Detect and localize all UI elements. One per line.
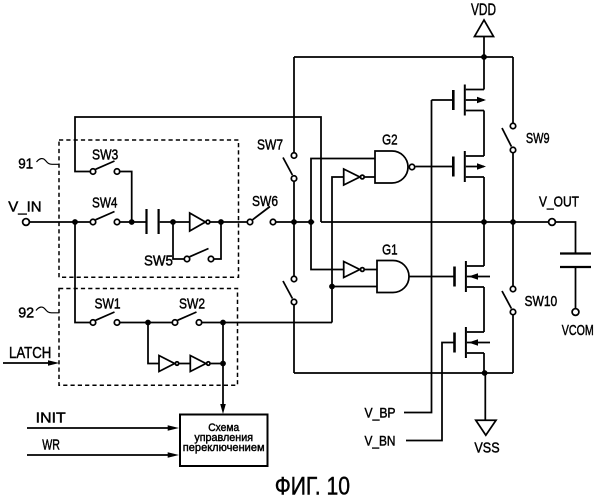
wire feedback from V_OUT line up-over to SW3: [75, 117, 321, 222]
wire M4 gate lead to V_BN riser: [406, 343, 455, 441]
svg-text:V_BP: V_BP: [365, 405, 396, 421]
svg-text:V_BN: V_BN: [365, 433, 396, 449]
switch SW8: [283, 276, 297, 304]
wire bottom rail: [294, 372, 513, 374]
wire latch feedback riser (SW2 node to U2 input and G1 input): [332, 177, 344, 323]
svg-text:V_OUT: V_OUT: [539, 195, 579, 211]
node V_OUT / M2-M3 junction: [481, 219, 487, 225]
svg-text:LATCH: LATCH: [9, 345, 51, 362]
power symbol VSS (down triangle): [476, 420, 496, 435]
wire G1 output to M3 gate: [410, 276, 455, 278]
wire VSS stem: [484, 373, 486, 420]
svg-text:SW9: SW9: [526, 130, 550, 147]
capacitor C2 (load): [560, 254, 591, 268]
wire SW7 to signal line: [293, 182, 295, 222]
wire U5 output to control riser: [211, 363, 223, 365]
switch SW3: [90, 161, 119, 174]
node SW7/SW8 junction: [291, 219, 297, 225]
node chain output junction: [220, 361, 226, 367]
svg-text:VSS: VSS: [474, 440, 499, 457]
node capacitor input junction: [129, 219, 135, 225]
wire V_OUT to load capacitor: [556, 222, 576, 253]
wire M1 gate lead: [432, 99, 454, 101]
node inverter chain tap: [145, 320, 151, 326]
node control tap on SW2 output: [220, 320, 226, 326]
node SW5 branch right: [218, 219, 224, 225]
wire control riser into control box: [222, 323, 224, 406]
wire SW8 to bottom rail: [293, 305, 295, 373]
wire SW2 output to latch riser: [202, 322, 332, 324]
wire G2 upper input from signal node: [311, 159, 375, 270]
wire M1 source to M2 drain: [483, 111, 485, 157]
svg-text:V_IN: V_IN: [8, 200, 41, 216]
wire SW4 to capacitor C1: [120, 221, 146, 223]
inverter U5: [190, 356, 210, 372]
gate G1 (AND): [377, 261, 409, 293]
wire SW1 to SW2: [120, 322, 172, 324]
svg-text:91: 91: [18, 156, 33, 173]
svg-text:SW6: SW6: [252, 193, 278, 210]
wire U1 output to G1: [365, 269, 377, 271]
gate G2 (NAND): [375, 151, 415, 183]
inverter U4: [159, 356, 179, 372]
wire VDD rail right drop to SW9: [512, 57, 514, 123]
transistor M1 (top PMOS): [453, 85, 486, 116]
svg-text:92: 92: [18, 304, 34, 321]
wire SW6 to gate branch node: [276, 221, 314, 223]
svg-text:SW1: SW1: [95, 296, 121, 313]
switch SW5: [184, 249, 213, 262]
wire V_IN branch down to SW1: [75, 222, 90, 323]
node V_OUT / SW9-SW10 junction: [510, 219, 516, 225]
switch SW6: [247, 207, 275, 225]
wire V_IN to SW4: [30, 221, 90, 223]
wire SW5 right leg: [214, 222, 221, 259]
wire V_OUT line: [321, 221, 548, 223]
transistor M2 (second PMOS): [453, 151, 486, 182]
wire M3 source to M4 drain: [483, 287, 485, 332]
arrow WR: [27, 454, 169, 456]
wire VDD stem: [483, 37, 485, 58]
switch SW7: [283, 153, 297, 181]
wire G2 output to M2 gate: [415, 166, 453, 168]
wire VDD rail left drop to SW7: [293, 57, 295, 152]
wire M4 source to VSS rail: [483, 353, 485, 373]
squiggle pointer 92: [36, 307, 59, 313]
arrowhead into control box: [220, 404, 226, 414]
svg-text:переключением: переключением: [183, 442, 265, 454]
terminal V_OUT: [549, 219, 556, 226]
wire V_OUT line down to SW10: [512, 222, 514, 286]
squiggle pointer 91: [37, 159, 59, 165]
svg-text:G2: G2: [382, 132, 398, 149]
dashed box 92: [59, 289, 238, 386]
wire SW5 left leg: [173, 222, 184, 259]
wire M3 drain to V_OUT line: [483, 222, 485, 266]
svg-text:WR: WR: [42, 438, 60, 454]
node signal to gates junction: [308, 219, 314, 225]
wire C1 to inverter U3: [160, 221, 190, 223]
switch SW4: [90, 212, 119, 225]
wire signal line down to SW8: [293, 222, 295, 276]
switch SW2: [172, 312, 201, 325]
svg-text:INIT: INIT: [36, 411, 66, 427]
svg-text:SW2: SW2: [179, 296, 205, 313]
transistor M4 (bottom NMOS): [455, 327, 491, 358]
svg-text:SW7: SW7: [257, 137, 283, 154]
svg-text:ФИГ. 10: ФИГ. 10: [275, 473, 350, 500]
wire M1 drain to VDD rail: [483, 57, 485, 90]
wire SW10 to bottom rail: [512, 315, 514, 373]
wire M2 source to V_OUT line: [483, 177, 485, 222]
inverter U3: [190, 213, 210, 231]
node bottom rail / VSS junction: [482, 370, 488, 376]
wire chain input from SW1-SW2 node: [148, 323, 159, 364]
inverter U1 at G1 upper input: [344, 262, 364, 278]
arrow LATCH: [3, 362, 49, 364]
node SW5 branch left: [170, 219, 176, 225]
wire U2 output to G2: [365, 176, 375, 178]
switch SW1: [90, 312, 119, 325]
svg-text:SW3: SW3: [92, 147, 118, 164]
wire C2 to VCOM: [575, 268, 577, 308]
switch SW9: [502, 123, 516, 152]
wire U3 output to SW6: [210, 221, 247, 223]
wire SW3 to capacitor input node: [120, 172, 132, 223]
wire V_BP riser to M1 gate: [404, 100, 432, 413]
power symbol VDD (up triangle): [475, 20, 494, 37]
inverter U2 at G2 lower input: [344, 169, 364, 185]
node G1 direct input junction: [329, 284, 335, 290]
dashed box 91: [59, 140, 239, 277]
svg-text:SW5: SW5: [144, 253, 173, 270]
svg-text:SW4: SW4: [92, 195, 117, 212]
wire G1 direct input: [332, 286, 377, 288]
svg-text:SW10: SW10: [525, 293, 558, 310]
control box (Схема управления переключением): [180, 415, 268, 467]
svg-text:G1: G1: [382, 242, 398, 259]
wire VDD rail: [294, 56, 513, 58]
capacitor C1: [147, 209, 159, 234]
node VDD rail junction: [481, 54, 487, 60]
node V_IN branch to SW1: [72, 219, 78, 225]
svg-text:VCOM: VCOM: [562, 323, 594, 339]
wire U4 to U5: [179, 363, 190, 365]
wire SW9 to V_OUT line: [512, 153, 514, 222]
svg-text:VDD: VDD: [471, 0, 496, 19]
switch SW10: [502, 286, 516, 314]
terminal V_IN: [23, 219, 30, 226]
transistor M3 (top NMOS): [455, 261, 491, 292]
arrow INIT: [27, 427, 169, 429]
terminal VCOM: [572, 309, 579, 316]
